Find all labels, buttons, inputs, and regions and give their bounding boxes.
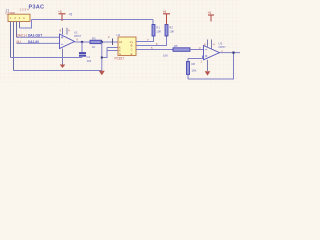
- svg-text:P3AC: P3AC: [29, 4, 45, 10]
- svg-text:1 2 3 4: 1 2 3 4: [10, 16, 26, 20]
- svg-text:1K: 1K: [92, 45, 96, 49]
- resistor R6: [187, 62, 197, 75]
- svg-text:DAC1-I: DAC1-I: [17, 33, 28, 37]
- svg-text:10K: 10K: [192, 69, 197, 73]
- resistor R5 series: [163, 44, 190, 58]
- wire R5 to op-amp U3 input: [190, 49, 204, 51]
- svg-text:V+: V+: [130, 40, 134, 44]
- capacitor C1 branch wire: [81, 42, 83, 53]
- svg-text:1 2 3 4: 1 2 3 4: [20, 8, 30, 12]
- svg-text:R3: R3: [92, 36, 96, 40]
- connector pin 1 wire: [10, 22, 12, 58]
- capacitor C1: [79, 53, 92, 63]
- bottom bus wire from J1 pin2: [14, 70, 102, 72]
- svg-text:10K: 10K: [163, 54, 168, 58]
- connector J1 body: [8, 14, 30, 21]
- ground drop wire from signal node: [101, 42, 103, 71]
- op-amp U1 triangle: [60, 34, 75, 49]
- svg-text:B: B: [131, 44, 133, 48]
- wire B (WR net) to op-amp input: [17, 42, 60, 44]
- IC pin3 wire: [107, 50, 118, 52]
- svg-text:+5: +5: [163, 10, 167, 14]
- junction at feedback tap: [232, 52, 234, 54]
- svg-text:DA1-OUT: DA1-OUT: [28, 34, 42, 38]
- IC right pin wire w1: [136, 36, 154, 42]
- +5 rail wire: [32, 19, 154, 21]
- wire pin4 to +5 rail: [20, 20, 32, 29]
- svg-text:10K: 10K: [169, 30, 174, 34]
- cap bottom stem: [81, 56, 83, 58]
- wire A (DAC1 net) to op-amp input: [17, 36, 60, 38]
- resistor R1 pull-up: [152, 25, 161, 37]
- IC right pin wire w3: [136, 49, 173, 51]
- svg-text:104: 104: [87, 59, 92, 63]
- svg-text:R5: R5: [174, 44, 178, 48]
- svg-text:DA1-IN: DA1-IN: [28, 40, 39, 44]
- op-amp U3 power stubs: [208, 40, 212, 49]
- op-amp U3 triangle: [204, 46, 220, 60]
- op-amp U1 V- stub to ground: [62, 49, 64, 65]
- svg-text:C: C: [131, 48, 133, 52]
- junction at ground drop: [101, 41, 103, 43]
- svg-text:M-I: M-I: [17, 40, 22, 44]
- junction node at cap branch: [81, 41, 83, 43]
- op-amp U1 power stub pin 8: [62, 28, 64, 35]
- rail corner down to R1: [152, 20, 154, 25]
- sheet background: [0, 0, 240, 83]
- svg-text:R6: R6: [192, 62, 196, 66]
- power +5 symbol above U3: [208, 11, 215, 21]
- svg-text:10K: 10K: [156, 30, 161, 34]
- op-amp U1 power stub pin 4 top: [66, 28, 68, 35]
- ground arrow under U1: [60, 65, 66, 69]
- wire pin1 of J1 to cap bottom: [11, 57, 83, 59]
- IC pins 2-3 tie bar: [106, 48, 108, 51]
- tie-down wire to ground drop: [102, 51, 107, 58]
- U3 V- stub to ground: [207, 60, 209, 71]
- svg-text:OP07: OP07: [219, 45, 227, 49]
- junction at tie/ground drop: [101, 57, 103, 59]
- ground arrow under U3: [205, 71, 211, 75]
- R6 bottom lead to feedback bus: [187, 75, 189, 80]
- svg-text:U2: U2: [117, 33, 121, 37]
- IC right pin wire w2: [136, 36, 167, 46]
- op-amp U1 output wire: [75, 41, 91, 43]
- svg-text:A1: A1: [119, 40, 123, 44]
- wire resistor to IC pin1: [102, 41, 119, 43]
- svg-text:OP07: OP07: [74, 34, 82, 38]
- svg-text:+5: +5: [208, 11, 212, 15]
- IC pin2 wire: [107, 47, 118, 49]
- resistor R2 pull-up: [165, 25, 174, 37]
- svg-text:+5: +5: [58, 10, 62, 14]
- svg-text:G: G: [119, 52, 121, 56]
- pin1 edge bar: [112, 39, 114, 46]
- resistor R6 top lead: [187, 59, 189, 62]
- op-amp U3 output wire: [220, 52, 241, 54]
- connector pin 2 wire: [13, 22, 15, 71]
- U3 + input feedback wire: [188, 56, 204, 59]
- connector pin 4 wire: [19, 22, 21, 29]
- svg-text:E: E: [131, 52, 133, 56]
- connector pin 3 wire: [16, 22, 18, 38]
- power +5 symbol right: [163, 10, 171, 25]
- feedback bottom wire: [188, 53, 234, 79]
- svg-text:+5: +5: [69, 13, 73, 17]
- resistor R3: [90, 36, 102, 49]
- power +5 symbol left: [58, 10, 66, 21]
- ground arrow mid: [99, 71, 105, 76]
- svg-text:PC817: PC817: [115, 57, 125, 61]
- IC U2 body: [118, 37, 136, 56]
